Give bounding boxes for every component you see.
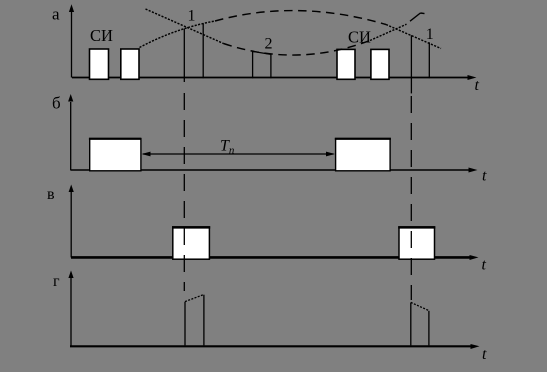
solid end segment of lower envelope (410, 13, 425, 21)
vertical dashed timing line left (183, 93, 185, 291)
axis vertical row в (70, 192, 72, 257)
axis horizontal row г (70, 345, 473, 347)
sawtooth pulse 1 left edge row г (184, 302, 186, 346)
axis horizontal arrowhead row г (471, 344, 480, 349)
dashed envelope curve lower, long-dash middle arc (224, 41, 371, 56)
svg-text:1: 1 (426, 26, 434, 43)
axis vertical row a (71, 12, 73, 78)
dashed envelope curve lower, left dotted part (146, 9, 224, 44)
period arrow left head (142, 152, 151, 157)
pulse 1 right edge (row a) (202, 23, 204, 78)
axis vertical arrowhead row a (69, 4, 74, 12)
sawtooth pulse 2 dotted top row г (411, 302, 429, 310)
square pulse 2 row в (399, 227, 435, 259)
axis vertical arrowhead row б (68, 94, 73, 102)
period arrow Tп line (143, 153, 334, 155)
svg-text:t: t (475, 77, 480, 94)
pulse СИ rect3 row a (337, 49, 355, 79)
pulse 2 outline (row a) (253, 51, 271, 78)
axis vertical arrowhead row г (68, 271, 73, 279)
square pulse 1 row в (173, 227, 210, 259)
svg-text:в: в (47, 186, 55, 203)
svg-text:t: t (482, 168, 487, 185)
dashed envelope curve upper, left dotted part (140, 21, 216, 48)
axis horizontal row a (72, 77, 470, 79)
axis horizontal row б (71, 169, 471, 171)
svg-text:t: t (482, 257, 487, 274)
sawtooth pulse 1 dotted top row г (185, 295, 204, 302)
axis horizontal arrowhead row в (470, 255, 479, 260)
sawtooth pulse 1 right edge row г (203, 295, 205, 346)
axis vertical row б (70, 102, 72, 171)
vertical dashed timing line right (410, 96, 412, 300)
svg-text:СИ: СИ (348, 27, 371, 46)
pulse СИ rect1 row a (90, 49, 109, 79)
svg-text:г: г (53, 273, 60, 290)
axis horizontal arrowhead row б (469, 168, 478, 173)
svg-text:t: t (482, 346, 487, 363)
wide pulse 1 row б (90, 139, 141, 171)
svg-text:2: 2 (265, 36, 273, 53)
svg-text:а: а (52, 5, 60, 24)
period arrow right head (326, 152, 335, 157)
svg-text:СИ: СИ (90, 26, 113, 45)
axis horizontal row в (71, 256, 472, 259)
sawtooth pulse 2 right edge row г (428, 311, 430, 346)
right pulse 1 left edge (row a) (410, 35, 412, 93)
dashed envelope curve upper, right dotted part (386, 25, 441, 49)
axis vertical arrowhead row в (69, 185, 74, 193)
axis vertical row г (70, 278, 72, 347)
pulse СИ rect2 row a (121, 49, 139, 79)
axis horizontal arrowhead row a (468, 75, 477, 80)
pulse 1 left edge (row a) (183, 29, 185, 82)
svg-text:1: 1 (188, 8, 196, 25)
wide pulse 2 row б (336, 139, 391, 171)
svg-text:б: б (52, 94, 61, 113)
pulse СИ rect4 row a (371, 49, 389, 79)
right pulse 1 right edge (row a) (428, 42, 430, 78)
dashed envelope curve upper, long-dash middle arc (215, 11, 386, 25)
dashed envelope curve lower, right dotted part (370, 24, 407, 40)
sawtooth pulse 2 left edge row г (410, 303, 412, 346)
